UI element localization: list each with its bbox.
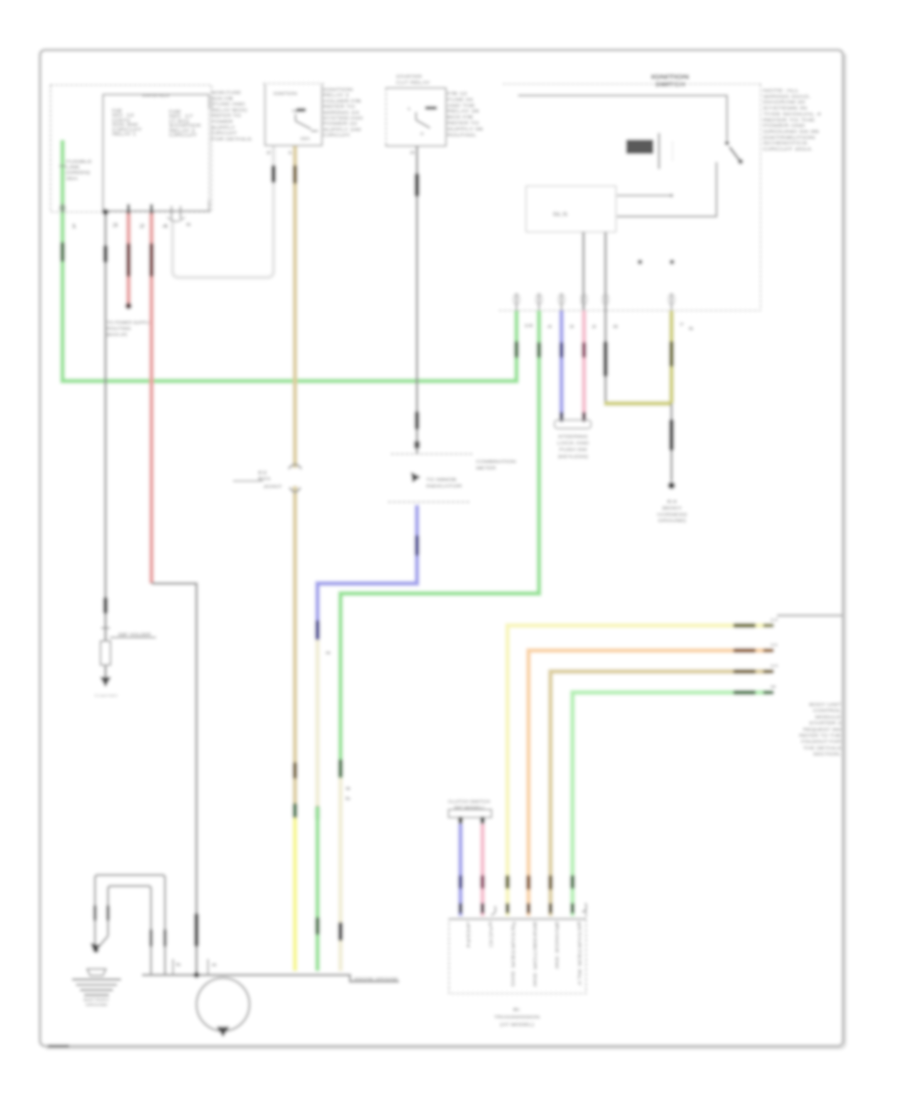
wire green W1 (fuse box to ignition switch) [63, 140, 517, 381]
connector C22 on W6 [315, 620, 320, 640]
wire yellow L1 [508, 626, 771, 917]
connector C2 on W1 [514, 341, 519, 358]
ground label E4 [657, 499, 687, 523]
wire SLS out 2 [604, 232, 606, 311]
svg-text:CIRCUIT.: CIRCUIT. [323, 133, 351, 139]
pin end L2 [763, 642, 778, 653]
connector C14 on W14b [338, 759, 343, 778]
pin end L3 [763, 663, 780, 674]
svg-text:SLS: SLS [553, 212, 569, 218]
connector C23 on W6b [315, 806, 320, 821]
svg-text:FUSIBLE: FUSIBLE [66, 159, 92, 164]
clutch switch label [448, 799, 490, 810]
svg-text:CIRCUIT: CIRCUIT [169, 133, 197, 138]
svg-text:a: a [326, 650, 332, 655]
connector C16 on W11 [559, 342, 564, 358]
tick on W1 [59, 165, 66, 167]
svg-text:METER: METER [476, 466, 497, 472]
text block right of B3 [447, 91, 483, 138]
combination meter dashed top [391, 453, 473, 455]
bus label [354, 976, 398, 981]
svg-text:E2: E2 [258, 470, 268, 475]
svg-text:(BODY: (BODY [662, 505, 682, 510]
battery terminal arrow [91, 943, 102, 953]
svg-text:TO BATTERY: TO BATTERY [94, 694, 118, 698]
pin ends bottom row [459, 903, 575, 914]
bus pin stub 2 [208, 959, 218, 975]
svg-text:NOTE: ALL: NOTE: ALL [763, 88, 800, 93]
svg-text:16: 16 [524, 323, 534, 329]
connector C9 on W8 [293, 165, 298, 184]
svg-text:RELAY BOX): RELAY BOX) [211, 107, 247, 113]
wire blue W15 [458, 824, 462, 916]
svg-text:SECTION.: SECTION. [813, 752, 841, 757]
svg-text:B21: B21 [258, 476, 272, 481]
wire cream W14b [338, 778, 342, 971]
svg-text:(FUSE AND: (FUSE AND [211, 102, 246, 108]
connector C29 on W15 [458, 875, 463, 889]
fuse box (dashed enclosure) [51, 85, 212, 212]
svg-text:ROUTING: ROUTING [107, 326, 132, 331]
wire pink W16 [480, 824, 484, 916]
label power supply [107, 320, 151, 337]
connector C25 on L1 [733, 623, 756, 628]
svg-text:6: 6 [186, 222, 192, 228]
svg-text:1: 1 [71, 224, 77, 230]
svg-text:PUSH SW: PUSH SW [559, 447, 588, 452]
svg-text:COMBINATION: COMBINATION [476, 459, 517, 465]
svg-text:REFER TO: REFER TO [447, 121, 479, 127]
svg-text:STARTER RLY: STARTER RLY [577, 925, 582, 986]
svg-text:LINK: LINK [66, 165, 81, 170]
steering lock label [557, 434, 590, 459]
tick on W2 [101, 627, 110, 629]
battery ground symbol [72, 969, 121, 1007]
svg-text:STARTER RELAY: STARTER RELAY [142, 93, 170, 98]
key symbol [626, 133, 673, 169]
svg-text:No.7: No.7 [292, 109, 302, 113]
node dot b [670, 260, 675, 265]
wire pink W12 [582, 311, 586, 418]
svg-text:WIRING 24: WIRING 24 [323, 110, 359, 116]
connector C27 on L3 [733, 669, 756, 674]
pin number 1 [71, 224, 77, 230]
pin end L4 [763, 684, 776, 695]
svg-text:TRANSMISSION: TRANSMISSION [494, 1015, 541, 1021]
label IGNITION SWITCH [651, 74, 690, 89]
battery cable outer [95, 875, 165, 975]
wire cream W6b [315, 640, 319, 807]
relay box B2 [263, 84, 324, 146]
svg-text:1: 1 [407, 107, 411, 111]
bus pin stub 1 [173, 959, 182, 975]
svg-text:POWER 22: POWER 22 [323, 121, 357, 127]
connector C19 on W9 [669, 341, 674, 367]
immobilizer arrow [411, 472, 421, 483]
terminal dot W3 [125, 303, 131, 309]
clutch switch box [449, 810, 492, 818]
connector C12b on W5 [415, 411, 420, 430]
svg-text:B:: B: [513, 1007, 521, 1013]
svg-text:FOLDOUT FOR: FOLDOUT FOR [801, 739, 842, 744]
relay contact in B3 [416, 112, 430, 136]
svg-text:HARNESS: HARNESS [657, 512, 687, 517]
svg-text:SYSTEMS IN: SYSTEMS IN [763, 106, 807, 111]
connector C24 on W6c [315, 917, 320, 935]
connector C4 on W2 [103, 597, 108, 614]
svg-text:BOX F/B: BOX F/B [211, 96, 233, 102]
svg-text:AND THE: AND THE [447, 103, 475, 109]
transmission label [494, 1007, 541, 1028]
relay box B1 [103, 95, 209, 212]
wire tan L3 [551, 672, 771, 917]
connector C13 on W14 [537, 342, 542, 358]
connector C20 on W9c [669, 419, 674, 451]
connector C28 on L4 [733, 690, 756, 695]
starter motor circle [197, 978, 250, 1031]
svg-text:RELAY 2: RELAY 2 [323, 93, 349, 99]
connector C33 on L3 [548, 875, 553, 890]
inline connector on W8 [233, 464, 302, 492]
svg-text:FOR DETAILS.: FOR DETAILS. [211, 136, 253, 142]
svg-text:9: 9 [770, 684, 776, 689]
wire gray W2 [104, 212, 106, 641]
svg-text:(GREEN): (GREEN) [66, 170, 91, 175]
label on B1 top [142, 93, 170, 98]
label immobilizer [426, 477, 463, 489]
svg-text:REFER TO THE: REFER TO THE [799, 733, 841, 738]
fuse F1 tap line [110, 632, 156, 638]
pin text j [346, 786, 352, 801]
connector C3 on W2 [103, 245, 108, 263]
wire olive W9b [604, 401, 672, 405]
starter motor arrow [217, 1027, 230, 1038]
svg-text:REFER TO: REFER TO [323, 104, 355, 110]
wire red W4 [149, 212, 153, 584]
svg-text:8: 8 [613, 324, 619, 330]
svg-text:2: 2 [592, 324, 598, 330]
svg-text:REFER TO THE: REFER TO THE [763, 117, 815, 122]
label combination meter [476, 459, 517, 472]
connector box pin labels [466, 925, 582, 988]
fusible link label [66, 159, 92, 181]
wire olive W9 [669, 311, 673, 404]
pin text a [326, 650, 332, 655]
relay box B3 [386, 88, 446, 146]
connector C7 on W4b [194, 913, 199, 947]
pin number 4 [162, 224, 168, 230]
pin numbers row [524, 322, 695, 331]
wire blue W6 [318, 505, 418, 640]
connector C15 on W14b [338, 922, 343, 941]
wire W2 lower stub [104, 665, 106, 678]
connector C34 on L4 [570, 875, 575, 889]
pin W3 [127, 204, 130, 214]
svg-text:CONTROL: CONTROL [813, 708, 842, 713]
svg-text:TO POWER SUPPLY: TO POWER SUPPLY [107, 320, 151, 325]
svg-text:FUSE 04: FUSE 04 [447, 97, 473, 103]
ground bus [142, 975, 399, 982]
svg-text:ACC: ACC [489, 925, 494, 950]
svg-text:ENGINE GROUND: ENGINE GROUND [354, 976, 398, 981]
pin ends steering lock [560, 412, 587, 422]
pin W1 at fuse box edge [60, 204, 65, 213]
wire orange L2 [529, 651, 771, 917]
connector C10 on W8 [293, 762, 298, 779]
svg-text:SBF HOLDER: SBF HOLDER [118, 632, 151, 637]
node dot a [638, 260, 643, 265]
text block B1 left [112, 108, 142, 137]
fuse symbol in B2 [292, 108, 306, 113]
wire white W7 [173, 146, 274, 278]
svg-text:4: 4 [547, 324, 553, 330]
arrow to battery [94, 677, 118, 698]
pin W4 [150, 204, 153, 214]
svg-text:CUT RELAY: CUT RELAY [396, 80, 431, 86]
label SLS [553, 212, 569, 218]
svg-text:3: 3 [112, 223, 118, 229]
right unit box top [777, 614, 842, 616]
wire gray W4b [152, 584, 197, 976]
connector C1 on W1 [60, 242, 65, 262]
switch link line [617, 162, 717, 217]
svg-text:SUPPLY 240: SUPPLY 240 [323, 127, 361, 133]
svg-text:INDICATOR: INDICATOR [426, 484, 463, 489]
svg-text:INHIBITOR SW: INHIBITOR SW [533, 925, 538, 988]
SLS tap line [617, 194, 673, 197]
text block right of B2 [323, 87, 364, 139]
label B2 [273, 91, 297, 96]
svg-text:GROUND 04-35: GROUND 04-35 [763, 129, 820, 134]
connector C36 cable [149, 929, 166, 947]
svg-text:IGNITION: IGNITION [273, 91, 297, 96]
svg-text:RELAY 28: RELAY 28 [447, 109, 479, 115]
connector C6 on W4 [149, 243, 154, 277]
connector row (dashed) [499, 310, 761, 312]
wire gray W5 [416, 146, 418, 454]
svg-text:POWER: POWER [211, 119, 234, 125]
svg-text:4: 4 [162, 224, 168, 230]
connector pins bracket [167, 206, 192, 228]
wire gray W10 [604, 311, 606, 403]
ground dot E4 [668, 482, 675, 489]
svg-text:(KEYLESS): (KEYLESS) [558, 454, 589, 459]
svg-text:2: 2 [139, 224, 145, 230]
battery cable inner [108, 886, 151, 975]
top right note [763, 88, 822, 152]
wire white W7b [272, 146, 275, 165]
svg-text:STEERING: STEERING [558, 434, 589, 439]
svg-text:REQUEST SW: REQUEST SW [803, 727, 842, 732]
switch contact [725, 141, 743, 164]
connector C30 on W16 [480, 875, 485, 889]
svg-text:MAIN FUSE: MAIN FUSE [211, 90, 241, 96]
svg-text:30A: 30A [66, 176, 79, 181]
connector C11 on W8 [293, 803, 298, 818]
svg-text:CIRCUIT: CIRCUIT [211, 131, 237, 137]
text block B1 right [169, 109, 202, 138]
terminal mark on W5 [414, 441, 420, 449]
fuse symbol in B3 [407, 106, 437, 111]
svg-text:STARTER SIG: STARTER SIG [511, 925, 516, 988]
connector C17 on W12 [582, 342, 587, 358]
connector C5 on W3 [126, 243, 131, 277]
relay contact in B2 [296, 114, 319, 141]
svg-text:DIAGRAM 20: DIAGRAM 20 [763, 100, 806, 105]
wire green W6c [315, 807, 319, 971]
wire gray W9c [670, 404, 672, 482]
pin curls bottom [491, 903, 586, 917]
svg-text:SYSTEM AND: SYSTEM AND [323, 116, 364, 122]
svg-text:MODULE: MODULE [815, 714, 841, 719]
svg-text:IGN: IGN [466, 925, 471, 948]
svg-text:(BACK-UP): (BACK-UP) [107, 332, 127, 337]
svg-text:STARTER: STARTER [396, 74, 423, 80]
label above B3 [396, 74, 431, 86]
svg-text:(AT MODEL): (AT MODEL) [500, 1022, 534, 1028]
pin numbers bottom [466, 921, 582, 926]
ignition switch dashed box [503, 84, 761, 311]
svg-text:IGNITION: IGNITION [323, 87, 354, 93]
ignition feed line [518, 96, 727, 141]
svg-text:GROUND: GROUND [86, 1002, 108, 1007]
pin end L1 [763, 617, 778, 628]
svg-text:SUPPLY 06: SUPPLY 06 [447, 126, 483, 132]
svg-text:THIS MANUAL 4: THIS MANUAL 4 [763, 111, 822, 116]
connector C35 cable [93, 905, 109, 921]
fuse F1 on W2 [101, 641, 111, 665]
svg-text:BOX F/B: BOX F/B [447, 115, 473, 121]
svg-text:REFER TO: REFER TO [211, 113, 241, 119]
svg-text:RELAY 1: RELAY 1 [112, 132, 137, 137]
clutch switch pins [458, 817, 484, 825]
svg-text:7: 7 [679, 322, 685, 328]
transmission connector box [449, 919, 586, 994]
svg-text:IGNITION: IGNITION [651, 74, 690, 81]
inline connector label [258, 470, 283, 489]
svg-text:LOCK AND: LOCK AND [557, 441, 590, 446]
pin numbers B2 [266, 150, 294, 155]
battery cable bend [99, 936, 109, 947]
connector C26 on L2 [733, 648, 756, 653]
wire tan W8 [293, 146, 297, 818]
connector C18 on W10 [603, 341, 608, 377]
svg-text:SCHEMATICS.: SCHEMATICS. [763, 141, 809, 146]
pin number B3 [410, 150, 416, 155]
svg-text:15A: 15A [300, 136, 310, 141]
connector C32 on L2 [526, 875, 531, 890]
connector C31 on L1 [505, 875, 510, 889]
bus junction [194, 972, 200, 978]
wire green W14 [341, 311, 540, 779]
svg-text:RANGE SW: RANGE SW [555, 925, 560, 970]
wire red W3 [126, 212, 130, 303]
pin number 3 [112, 223, 118, 229]
svg-text:F/B 12: F/B 12 [447, 91, 467, 97]
svg-text:12: 12 [770, 617, 778, 622]
junction dot W2 [102, 209, 108, 215]
page tick bottom left [48, 1045, 69, 1048]
text block right of fuse box [211, 90, 253, 142]
svg-text:THE DETAILS: THE DETAILS [803, 745, 841, 750]
svg-text:WIRING DIAG.: WIRING DIAG. [763, 94, 811, 99]
wire yellow W8b [293, 818, 297, 971]
svg-text:DISTRIBUTION: DISTRIBUTION [763, 135, 815, 140]
steering lock box SLS [526, 186, 616, 232]
svg-text:CIRCUIT 2014.: CIRCUIT 2014. [763, 147, 813, 152]
svg-text:E4: E4 [667, 499, 678, 504]
svg-text:HOLDER F/B: HOLDER F/B [323, 98, 361, 104]
svg-text:JOINT: JOINT [263, 484, 283, 489]
connector C12 on W5 [415, 173, 420, 197]
svg-text:SWITCH: SWITCH [655, 82, 685, 89]
svg-text:BODY UNIT: BODY UNIT [809, 702, 841, 707]
right unit label [799, 702, 842, 757]
steering lock connector bracket [555, 420, 592, 429]
svg-text:CLUTCH SWITCH: CLUTCH SWITCH [448, 799, 490, 804]
svg-text:TO IMMOB.: TO IMMOB. [426, 477, 458, 482]
wire blue W11 [559, 311, 563, 418]
wire SLS out 1 [582, 232, 584, 311]
connector C8 on W7 [271, 165, 276, 183]
connector C21 on W6 [415, 535, 420, 556]
svg-text:STARTER 2: STARTER 2 [809, 721, 842, 726]
wire green L4 [573, 693, 771, 917]
svg-text:ROUTING.: ROUTING. [447, 132, 477, 138]
svg-text:SUPPLY: SUPPLY [211, 125, 236, 131]
combination meter dashed bottom [388, 501, 470, 503]
svg-text:POWER AND: POWER AND [763, 123, 806, 128]
connector pins row [514, 293, 675, 311]
pin number 2 [139, 224, 145, 230]
svg-text:GROUND): GROUND) [658, 518, 687, 523]
svg-text:3: 3 [569, 324, 575, 330]
svg-text:11: 11 [770, 642, 778, 647]
